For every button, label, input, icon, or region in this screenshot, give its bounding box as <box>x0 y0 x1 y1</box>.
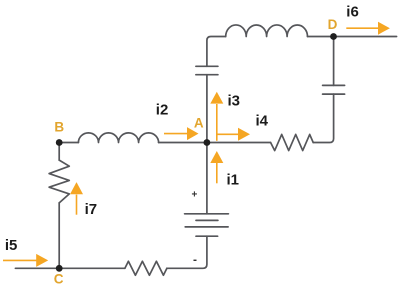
resistor bottom (zigzag) <box>125 261 167 275</box>
capacitor right plate upper <box>323 84 345 86</box>
wire resistor to node B <box>58 143 60 161</box>
node D <box>330 33 337 40</box>
svg-text:A: A <box>194 116 204 131</box>
svg-text:i5: i5 <box>5 237 18 254</box>
battery plate long lower <box>185 226 228 228</box>
arrow i5 <box>3 254 48 267</box>
wire capacitor down and corner to resistor <box>313 94 333 142</box>
wire battery top plate to node A <box>206 143 208 214</box>
node A <box>204 139 211 146</box>
arrow i6 <box>346 22 390 35</box>
inductor B to A (4 humps) <box>78 133 158 143</box>
capacitor above A plate upper <box>196 65 218 67</box>
wire node D to right edge <box>334 36 397 38</box>
capacitor above A plate lower <box>196 74 218 76</box>
battery plate short bottom <box>196 235 218 237</box>
node B <box>56 139 63 146</box>
svg-text:B: B <box>54 119 64 134</box>
wire node B to inductor <box>59 142 78 144</box>
svg-text:i3: i3 <box>228 92 241 109</box>
svg-text:i7: i7 <box>85 201 98 218</box>
svg-text:C: C <box>54 272 64 287</box>
wire node D down to capacitor <box>333 37 335 86</box>
arrow i7 <box>70 182 83 215</box>
svg-text:i2: i2 <box>156 102 169 119</box>
battery plate short upper <box>196 219 218 221</box>
wire resistor to node A right side <box>207 142 271 144</box>
wire bottom rail left of C <box>15 267 59 269</box>
battery plate long top <box>185 213 229 215</box>
wire inductor to node A <box>159 142 207 144</box>
svg-text:i6: i6 <box>346 3 359 20</box>
svg-text:i4: i4 <box>256 112 269 129</box>
svg-text:D: D <box>328 17 338 32</box>
inductor top A-corner to D (4 humps) <box>226 25 308 37</box>
wire node A up to capacitor <box>206 75 208 143</box>
svg-text:-: - <box>193 252 197 266</box>
arrow i3 <box>210 92 223 141</box>
arrow i2 <box>164 127 199 140</box>
resistor right mid rail (zigzag) <box>271 134 314 150</box>
svg-text:i1: i1 <box>227 172 240 189</box>
resistor left vertical (zigzag) <box>49 160 69 203</box>
arrow i1 <box>210 151 223 183</box>
node C <box>56 265 63 272</box>
wire capacitor up and corner to top inductor <box>207 37 226 67</box>
svg-text:+: + <box>191 190 197 201</box>
wire bottom rail C to resistor <box>59 267 125 269</box>
capacitor right plate lower <box>323 93 345 95</box>
wire bottom rail resistor to battery corner <box>167 236 207 268</box>
arrow i4 <box>218 128 251 141</box>
wire C up to resistor <box>58 203 60 268</box>
wire inductor to node D <box>308 36 334 38</box>
